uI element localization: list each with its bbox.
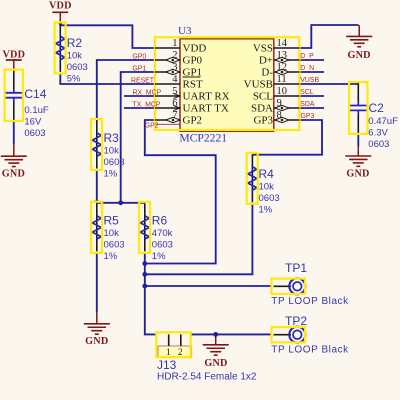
svg-text:1%: 1% <box>259 205 273 216</box>
svg-text:TP2: TP2 <box>285 314 307 328</box>
svg-text:R6: R6 <box>152 214 168 228</box>
svg-text:0.47uF: 0.47uF <box>368 116 398 127</box>
svg-text:GND: GND <box>85 336 108 347</box>
svg-text:MCP2221: MCP2221 <box>179 131 227 144</box>
svg-text:4: 4 <box>172 74 178 85</box>
svg-text:RST: RST <box>183 79 203 91</box>
svg-text:13: 13 <box>277 50 288 61</box>
svg-text:VUSB: VUSB <box>244 79 273 91</box>
svg-text:SCL: SCL <box>253 91 273 103</box>
svg-text:GND: GND <box>346 169 369 180</box>
svg-text:1%: 1% <box>104 169 118 180</box>
svg-text:11: 11 <box>277 74 287 85</box>
svg-text:10k: 10k <box>259 182 275 193</box>
svg-text:RESET: RESET <box>131 78 155 85</box>
svg-text:R4: R4 <box>259 167 275 181</box>
svg-text:14: 14 <box>277 38 288 49</box>
svg-text:0603: 0603 <box>67 62 88 73</box>
svg-text:VSS: VSS <box>253 43 273 55</box>
svg-text:SCL: SCL <box>300 89 314 96</box>
svg-text:GP3: GP3 <box>253 115 273 127</box>
svg-text:GP2: GP2 <box>183 115 203 127</box>
svg-text:0603: 0603 <box>259 193 280 204</box>
svg-text:SDA: SDA <box>251 103 273 115</box>
svg-text:GND: GND <box>2 169 25 180</box>
svg-text:R5: R5 <box>104 214 120 228</box>
svg-text:GP0: GP0 <box>183 55 203 67</box>
svg-text:7: 7 <box>172 110 177 121</box>
svg-text:VDD: VDD <box>183 43 207 55</box>
svg-text:GP0: GP0 <box>132 54 146 61</box>
svg-text:TP1: TP1 <box>285 261 307 275</box>
svg-text:HDR-2.54 Female 1x2: HDR-2.54 Female 1x2 <box>157 371 257 382</box>
svg-text:16V: 16V <box>24 116 42 127</box>
svg-text:0.1uF: 0.1uF <box>24 105 48 116</box>
svg-text:10: 10 <box>277 86 288 97</box>
svg-text:9: 9 <box>277 98 282 109</box>
svg-text:VDD: VDD <box>2 50 25 61</box>
svg-text:VDD: VDD <box>49 1 72 12</box>
svg-text:TP LOOP Black: TP LOOP Black <box>271 344 349 355</box>
svg-text:10k: 10k <box>104 228 120 239</box>
svg-text:R3: R3 <box>104 131 120 145</box>
svg-text:5: 5 <box>172 86 177 97</box>
svg-text:TX_MCP: TX_MCP <box>133 102 161 109</box>
svg-text:GP1: GP1 <box>132 66 146 73</box>
svg-text:0603: 0603 <box>152 240 173 251</box>
svg-text:0603: 0603 <box>24 128 45 139</box>
svg-text:1: 1 <box>166 348 171 358</box>
svg-text:D_N: D_N <box>300 65 314 72</box>
svg-text:RX_MCP: RX_MCP <box>133 90 162 97</box>
svg-text:12: 12 <box>277 62 288 73</box>
svg-text:GP2: GP2 <box>145 122 159 129</box>
svg-text:D-: D- <box>261 67 273 79</box>
svg-text:C2: C2 <box>369 101 385 115</box>
svg-text:SDA: SDA <box>300 101 315 108</box>
svg-text:UART RX: UART RX <box>183 91 230 103</box>
svg-text:2: 2 <box>178 348 183 358</box>
svg-text:VUSB: VUSB <box>300 77 319 84</box>
svg-text:0603: 0603 <box>368 139 389 150</box>
svg-text:U3: U3 <box>178 25 192 37</box>
svg-text:10k: 10k <box>104 146 120 157</box>
svg-text:GND: GND <box>204 358 227 369</box>
svg-text:C14: C14 <box>24 87 46 101</box>
svg-text:GND: GND <box>347 50 370 61</box>
svg-text:0603: 0603 <box>104 240 125 251</box>
svg-text:R2: R2 <box>67 36 83 50</box>
svg-text:J13: J13 <box>157 358 177 372</box>
svg-text:470k: 470k <box>152 228 173 239</box>
svg-text:6: 6 <box>172 98 177 109</box>
svg-text:2: 2 <box>172 50 177 61</box>
svg-text:1: 1 <box>172 38 177 49</box>
svg-text:8: 8 <box>277 110 282 121</box>
svg-text:1%: 1% <box>152 251 166 262</box>
svg-text:1%: 1% <box>104 251 118 262</box>
svg-text:TP LOOP Black: TP LOOP Black <box>271 296 349 307</box>
svg-text:10k: 10k <box>67 51 83 62</box>
svg-text:D_P: D_P <box>300 53 314 60</box>
svg-text:0603: 0603 <box>104 157 125 168</box>
svg-text:6.3V: 6.3V <box>368 127 388 138</box>
svg-text:GP3: GP3 <box>301 113 315 120</box>
svg-text:3: 3 <box>172 62 177 73</box>
svg-text:UART TX: UART TX <box>183 103 229 115</box>
svg-text:D+: D+ <box>259 55 273 67</box>
svg-text:5%: 5% <box>67 74 81 85</box>
